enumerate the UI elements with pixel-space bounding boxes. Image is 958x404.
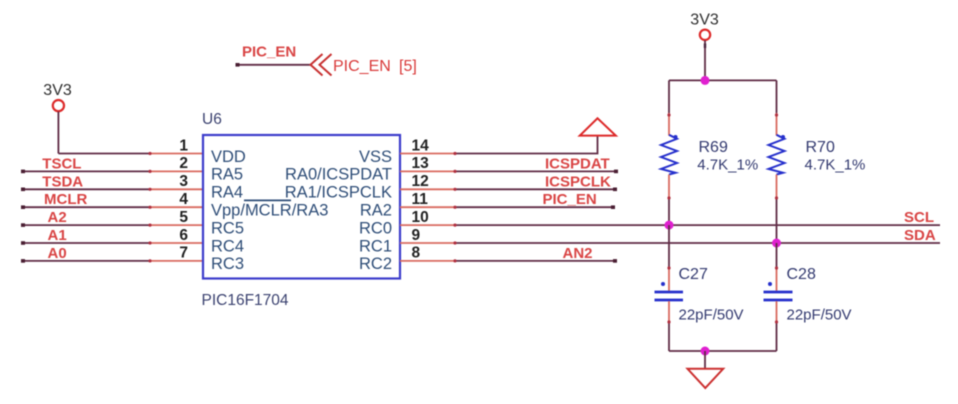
wire pin5 A2	[21, 223, 203, 227]
junction R70-SDA	[772, 239, 781, 248]
svg-text:PIC_EN: PIC_EN	[242, 43, 296, 60]
svg-text:3: 3	[179, 173, 188, 190]
power symbol 3V3 left	[43, 82, 72, 153]
svg-text:RA1/ICSPCLK: RA1/ICSPCLK	[285, 184, 392, 202]
junction top rail	[701, 76, 710, 85]
svg-text:RA2: RA2	[360, 202, 392, 220]
wire pin10	[400, 224, 940, 227]
wire ground stem	[704, 351, 706, 369]
svg-text:RC0: RC0	[359, 219, 392, 237]
resistor R69	[661, 135, 678, 175]
wire SDA junction to C28	[775, 243, 778, 291]
wire pin9	[400, 241, 940, 244]
svg-text:6: 6	[179, 227, 188, 244]
wire SCL junction to C27	[667, 225, 670, 291]
svg-text:R70: R70	[806, 139, 835, 156]
wire pin11	[400, 205, 615, 209]
svg-text:Vpp/MCLR/RA3: Vpp/MCLR/RA3	[211, 202, 328, 220]
svg-text:RC1: RC1	[359, 237, 392, 255]
svg-text:U6: U6	[202, 111, 222, 128]
wire pin3 TSDA	[21, 188, 203, 192]
wire R69 bottom to SCL junction	[667, 175, 670, 226]
svg-text:RA5: RA5	[211, 166, 243, 184]
svg-text:9: 9	[412, 227, 421, 244]
svg-text:AN2: AN2	[563, 245, 593, 262]
svg-text:R69: R69	[699, 139, 728, 156]
svg-text:PIC_EN: PIC_EN	[543, 191, 597, 208]
svg-text:RC4: RC4	[211, 237, 244, 255]
svg-text:[5]: [5]	[399, 58, 417, 75]
wire R70 top	[775, 80, 778, 135]
svg-text:TSDA: TSDA	[42, 173, 83, 190]
svg-text:13: 13	[412, 155, 430, 172]
wire top rail	[669, 79, 777, 81]
pin name Vpp/MCLR/RA3 with MCLR overbar	[211, 200, 328, 219]
svg-text:RC2: RC2	[359, 255, 392, 273]
wire pin13	[400, 170, 618, 174]
ground	[688, 369, 724, 388]
svg-text:ICSPCLK: ICSPCLK	[545, 173, 611, 190]
IC U6 body	[203, 135, 400, 279]
wire pin7 A0	[21, 259, 203, 263]
off-page connector PIC_EN	[236, 43, 417, 75]
wire C28 bottom	[775, 301, 778, 351]
svg-text:3V3: 3V3	[43, 82, 72, 99]
wire pin8	[400, 259, 617, 263]
wire R70 bottom to SDA junction	[775, 175, 778, 244]
svg-text:12: 12	[412, 173, 429, 190]
svg-text:RC5: RC5	[211, 219, 244, 237]
wire C27 bottom	[667, 301, 670, 351]
wire R69 top	[667, 80, 670, 135]
svg-text:5: 5	[179, 209, 188, 226]
svg-text:A2: A2	[48, 209, 67, 226]
svg-text:A1: A1	[48, 227, 67, 244]
wire pin6 A1	[21, 241, 203, 245]
svg-text:10: 10	[412, 209, 429, 226]
wire pin2 TSCL	[21, 170, 203, 174]
svg-text:7: 7	[179, 245, 188, 262]
svg-text:C28: C28	[787, 266, 816, 283]
svg-text:VDD: VDD	[211, 148, 246, 166]
svg-text:A0: A0	[48, 245, 67, 262]
svg-text:4.7K_1%: 4.7K_1%	[805, 157, 866, 174]
svg-text:11: 11	[412, 191, 429, 208]
svg-text:22pF/50V: 22pF/50V	[679, 307, 744, 324]
junction R69-SCL	[665, 221, 674, 230]
wire pin14 VSS to arrow	[400, 137, 598, 156]
svg-text:2: 2	[179, 155, 188, 172]
svg-text:3V3: 3V3	[690, 11, 719, 28]
svg-text:RC3: RC3	[211, 255, 244, 273]
svg-text:VSS: VSS	[359, 148, 392, 166]
svg-text:ICSPDAT: ICSPDAT	[545, 155, 610, 172]
svg-text:8: 8	[412, 245, 421, 262]
junction ground rail	[701, 347, 710, 356]
svg-text:1: 1	[179, 137, 188, 154]
capacitor C28	[764, 282, 793, 300]
svg-text:4.7K_1%: 4.7K_1%	[697, 157, 758, 174]
svg-text:4: 4	[179, 191, 188, 208]
svg-text:14: 14	[412, 137, 430, 154]
svg-text:TSCL: TSCL	[42, 155, 81, 172]
svg-text:22pF/50V: 22pF/50V	[787, 307, 852, 324]
svg-text:SDA: SDA	[904, 227, 936, 244]
svg-text:RA0/ICSPDAT: RA0/ICSPDAT	[285, 166, 392, 184]
svg-text:PIC16F1704: PIC16F1704	[202, 292, 289, 309]
svg-text:PIC_EN: PIC_EN	[333, 58, 391, 75]
wire pin4 MCLR	[21, 205, 203, 209]
resistor R70	[769, 135, 786, 175]
svg-text:RA4: RA4	[211, 184, 243, 202]
svg-text:MCLR: MCLR	[44, 191, 87, 208]
svg-text:C27: C27	[679, 266, 708, 283]
capacitor C27	[655, 282, 684, 300]
power symbol 3V3 right	[690, 11, 719, 80]
power arrow on VSS net	[580, 118, 616, 135]
wire pin1 VDD	[58, 152, 203, 155]
wire ground rail	[669, 350, 777, 352]
svg-text:SCL: SCL	[904, 209, 934, 226]
wire pin12	[400, 188, 617, 192]
